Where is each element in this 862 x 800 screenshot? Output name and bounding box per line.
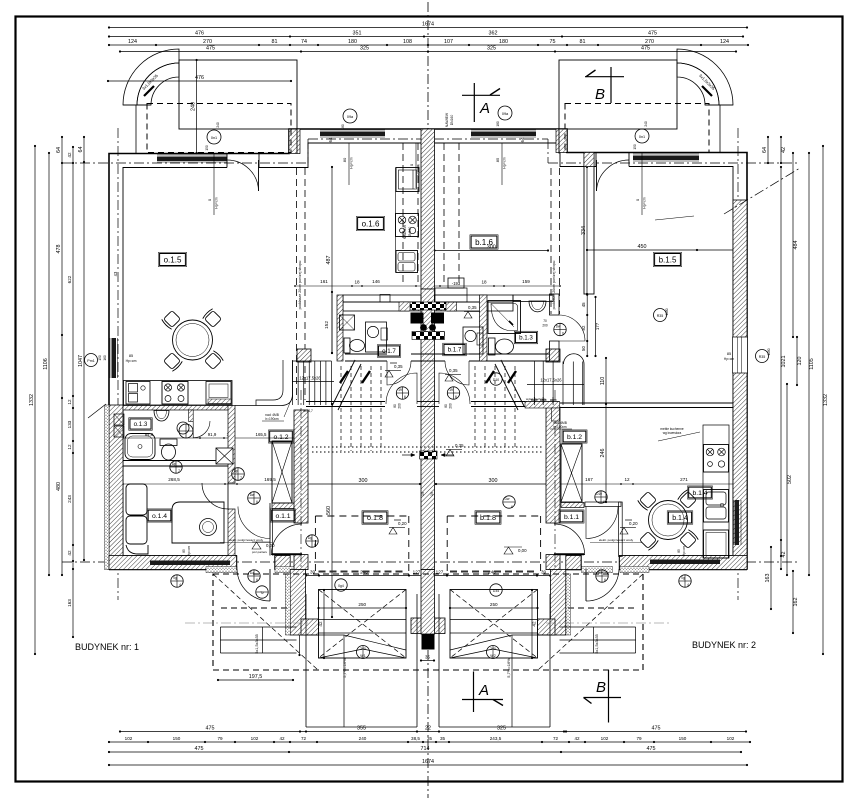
wall b.1.6 / b.1.5 right unit — [584, 153, 594, 295]
svg-text:o.1.6: o.1.6 — [362, 219, 380, 228]
front door right unit in top wall — [595, 153, 597, 167]
svg-text:75: 75 — [550, 39, 556, 45]
svg-text:43: 43 — [113, 271, 118, 276]
svg-text:72: 72 — [553, 736, 559, 741]
svg-text:246: 246 — [600, 449, 606, 458]
svg-text:1080: 1080 — [767, 348, 771, 355]
svg-text:475: 475 — [206, 726, 215, 732]
svg-text:475: 475 — [195, 746, 204, 752]
bottom dimension row C — [109, 751, 741, 753]
svg-text:5,7%=16%: 5,7%=16% — [506, 658, 511, 678]
dimension 110 and 246 vertical right — [605, 358, 607, 502]
vent checker band at axis — [410, 302, 446, 310]
svg-text:300: 300 — [489, 478, 498, 484]
svg-text:6: 6 — [562, 332, 564, 336]
door o.1.4 from corridor — [202, 483, 228, 509]
svg-text:475: 475 — [647, 746, 656, 752]
svg-text:240: 240 — [490, 647, 496, 651]
small rect above o.1.7 — [380, 295, 390, 303]
exterior wall inner boundary right unit — [428, 143, 596, 167]
svg-text:Hp=cm: Hp=cm — [126, 359, 137, 363]
svg-text:elektr. podgrzewacz wody: elektr. podgrzewacz wody — [229, 538, 264, 542]
svg-text:b.1.4: b.1.4 — [692, 490, 707, 497]
svg-text:502: 502 — [787, 475, 793, 484]
bold dashed lintel over garage door right — [450, 571, 538, 573]
arrow to party wall vent left — [402, 454, 415, 456]
dashed attic edge line left — [296, 168, 298, 400]
svg-text:19: 19 — [430, 492, 434, 496]
svg-text:50: 50 — [581, 346, 586, 351]
kitchen stove o.1.6 — [396, 214, 419, 237]
room label o.1.2 — [270, 431, 293, 442]
svg-text:240: 240 — [360, 647, 366, 651]
desk o.1.4 — [172, 502, 224, 543]
radiator left wall o.1.3 — [114, 414, 124, 425]
svg-text:D10: D10 — [493, 378, 499, 382]
svg-text:poddasze 20cm ponizej stropu: poddasze 20cm ponizej stropu — [552, 261, 556, 310]
svg-text:6: 6 — [256, 500, 258, 504]
bottom dimension row B — [109, 741, 750, 743]
axis dash dot through nook right — [546, 622, 671, 624]
svg-text:R35: R35 — [759, 355, 766, 359]
svg-text:271: 271 — [680, 477, 688, 482]
entry platform left unit — [179, 60, 297, 129]
svg-text:o.1.4: o.1.4 — [152, 513, 167, 520]
svg-text:b.1.6: b.1.6 — [475, 238, 493, 247]
svg-text:DN160: DN160 — [450, 115, 454, 126]
svg-text:BUDYNEK nr: 2: BUDYNEK nr: 2 — [692, 640, 756, 650]
svg-text:85: 85 — [727, 352, 731, 356]
svg-text:85: 85 — [129, 354, 133, 358]
right small dimension 162 — [792, 571, 794, 633]
window porch left o.1.6 — [320, 132, 385, 137]
dimension 560 vertical left garage — [331, 404, 333, 617]
svg-text:12: 12 — [67, 399, 72, 405]
chimney flue black right — [431, 313, 444, 324]
svg-text:79: 79 — [217, 736, 223, 741]
right dimension chain 120 — [796, 337, 798, 385]
svg-text:4: 4 — [687, 583, 689, 587]
center pier block between garage doors — [411, 618, 445, 634]
section mark A top — [462, 94, 500, 96]
party wall center — [421, 129, 435, 289]
interior dim row y=286 center — [295, 285, 560, 287]
left dimension chain 64/1047 — [83, 137, 85, 560]
svg-text:h=190cm: h=190cm — [265, 417, 279, 421]
svg-text:1674: 1674 — [422, 759, 434, 765]
right dimension chain 1105 — [808, 153, 810, 575]
kitchen sink b.1.4 — [704, 490, 729, 523]
wall segment o.1.1 hatched strip — [272, 503, 295, 509]
level marker -0.35 right landing — [445, 375, 453, 382]
svg-text:wg inwestora: wg inwestora — [663, 431, 682, 435]
svg-text:Hp=cm: Hp=cm — [417, 164, 421, 175]
kitchen counter right unit — [703, 425, 729, 558]
svg-text:161: 161 — [320, 279, 328, 284]
svg-text:-193: -193 — [452, 281, 461, 286]
svg-text:110: 110 — [600, 377, 606, 386]
svg-text:D34: D34 — [493, 589, 499, 593]
svg-text:200: 200 — [398, 403, 402, 409]
curved entry steps right unit — [677, 49, 733, 105]
cabinet washbasin b.1.7 — [463, 327, 483, 354]
svg-text:45: 45 — [581, 302, 586, 307]
svg-text:Tz: Tz — [260, 591, 264, 595]
terrace door left unit bottom wall — [236, 556, 238, 570]
room label b.1.3 — [515, 332, 536, 342]
svg-text:120: 120 — [797, 357, 803, 366]
marker circle 09a left porch — [343, 109, 357, 123]
big dashed canopy rect bottom — [213, 574, 643, 670]
room label b.1.1 — [560, 511, 583, 522]
room label o.1.6 — [358, 218, 384, 230]
window right wall b.1.5 white break — [733, 337, 748, 373]
svg-text:250: 250 — [490, 602, 498, 607]
chairs around right table — [637, 491, 657, 511]
driveway dim 35 center — [421, 660, 434, 662]
central mirror axis line — [427, 2, 429, 798]
cabinet washbasin o.1.7 — [366, 322, 387, 352]
svg-text:124: 124 — [128, 39, 137, 45]
level marker 0.00 right hall — [504, 547, 513, 554]
marker circle at b.1.3 door — [554, 323, 566, 335]
section mark B top — [585, 76, 624, 78]
radiator niche corridor wall left — [216, 448, 233, 464]
svg-text:poddasze 20cm ponizej stropu: poddasze 20cm ponizej stropu — [298, 261, 302, 310]
window right wall b.1.4 — [735, 500, 740, 545]
kitchen sink left unit — [126, 382, 150, 405]
svg-text:0,35: 0,35 — [468, 305, 477, 310]
section mark B bottom — [584, 697, 622, 699]
shower b.1.3 — [488, 301, 521, 334]
exterior wall outer boundary right unit — [428, 129, 747, 570]
svg-text:1047: 1047 — [78, 355, 84, 367]
svg-text:6: 6 — [314, 543, 316, 547]
svg-text:b.1.5: b.1.5 — [659, 255, 677, 264]
svg-text:o.1.1: o.1.1 — [275, 513, 290, 520]
svg-text:487: 487 — [326, 256, 332, 265]
dotted gallery lines above halls — [312, 446, 544, 448]
marker circle Dg left garage front — [306, 535, 318, 547]
svg-text:Dw: Dw — [250, 493, 255, 497]
svg-text:19: 19 — [449, 388, 453, 392]
marker circle Dw1 left hall — [248, 492, 261, 505]
svg-text:B: B — [595, 86, 605, 103]
svg-text:A: A — [478, 682, 489, 699]
window annotation top right porch — [501, 143, 503, 185]
svg-text:1106: 1106 — [43, 358, 49, 370]
svg-text:64: 64 — [520, 137, 525, 142]
svg-text:74: 74 — [301, 39, 307, 45]
bottom wall left hatch — [109, 556, 237, 570]
top dimension row 1 total 1674 — [109, 27, 747, 29]
shaft o.1.2 left — [272, 441, 292, 503]
room label b.1.4 kitchen — [689, 487, 712, 498]
svg-text:80: 80 — [444, 404, 448, 408]
shaft strip right unit — [561, 503, 584, 508]
sofa o.1.4 — [126, 484, 147, 515]
svg-text:240: 240 — [359, 736, 367, 741]
kitchen stove b.1.4 — [704, 445, 729, 473]
washbasin b.1.3 — [529, 301, 546, 312]
svg-text:200: 200 — [542, 324, 548, 328]
marker circle bottom b.1.4 — [490, 373, 502, 385]
svg-text:560: 560 — [326, 506, 332, 515]
door hall left — [386, 373, 417, 404]
nook side wall right unit — [550, 570, 565, 636]
svg-text:1332: 1332 — [823, 394, 829, 406]
dashed canopy lines garage left — [315, 515, 408, 517]
dimension 450 room b.1.5 — [587, 249, 740, 251]
svg-text:o.1.7: o.1.7 — [382, 348, 396, 355]
svg-text:Dp: Dp — [234, 469, 238, 473]
pier above garage wall left — [297, 349, 311, 362]
svg-text:b.1.2: b.1.2 — [567, 434, 582, 441]
counter line o.1.6 — [395, 168, 397, 273]
driveway dim 250 left — [319, 607, 407, 609]
marker circle 0n1 left — [207, 130, 221, 144]
svg-text:0,20: 0,20 — [398, 521, 407, 526]
svg-text:325: 325 — [487, 46, 496, 52]
svg-text:107: 107 — [444, 39, 453, 45]
svg-text:197,5: 197,5 — [249, 674, 263, 680]
window top wall right b.1.5 — [633, 156, 699, 161]
bottom wall right hatch — [619, 556, 747, 570]
dining table left unit — [173, 320, 213, 360]
svg-text:475: 475 — [206, 46, 215, 52]
bold dashed lintel over garage door left — [319, 571, 407, 573]
svg-text:A: A — [479, 100, 490, 117]
svg-text:102: 102 — [601, 736, 609, 741]
svg-text:250: 250 — [358, 602, 366, 607]
window left wall o.1.5 — [112, 338, 117, 378]
svg-text:12x17,5x26: 12x17,5x26 — [540, 378, 562, 383]
svg-text:79: 79 — [636, 736, 642, 741]
svg-text:70: 70 — [543, 319, 547, 323]
svg-text:42: 42 — [574, 736, 580, 741]
bold dashed lintel over terrace door right — [568, 607, 635, 609]
svg-text:150: 150 — [173, 736, 181, 741]
stair handrail curve to corridor wall — [235, 360, 293, 406]
svg-text:150: 150 — [679, 736, 687, 741]
stair left direction arrow — [332, 360, 355, 406]
svg-text:102: 102 — [251, 736, 259, 741]
svg-text:42: 42 — [781, 552, 787, 558]
svg-text:0n1: 0n1 — [211, 136, 217, 140]
svg-text:0,20: 0,20 — [629, 521, 638, 526]
svg-text:6: 6 — [603, 500, 605, 504]
svg-text:Dz: Dz — [250, 571, 254, 575]
svg-text:102: 102 — [125, 736, 133, 741]
door b.1.3 from hall — [559, 315, 585, 341]
arrow to party wall vent right — [441, 454, 454, 456]
dining table right unit — [649, 501, 688, 540]
chairs around left table — [161, 310, 181, 330]
svg-text:0n1: 0n1 — [639, 135, 645, 139]
stair left dashed upper flight — [340, 366, 342, 451]
entry platform right unit — [559, 60, 677, 129]
level marker -0.35 left landing — [385, 371, 393, 378]
sofa b.1.5 top right room side table — [699, 189, 701, 191]
svg-text:6: 6 — [256, 578, 258, 582]
toilet b.1.3 — [489, 338, 496, 355]
curved entry steps left unit — [123, 49, 179, 105]
svg-text:91,9: 91,9 — [208, 432, 217, 437]
marker circle Pm1 left wall window — [85, 354, 98, 367]
svg-text:159: 159 — [522, 279, 530, 284]
svg-text:Hp=cm: Hp=cm — [350, 157, 354, 168]
svg-text:h=190cm: h=190cm — [553, 425, 567, 429]
bottom wall right unit outer — [619, 569, 747, 571]
svg-text:12: 12 — [624, 477, 630, 482]
svg-text:268,5: 268,5 — [168, 477, 180, 482]
dimension 240 entry platform depth — [196, 60, 198, 153]
svg-text:146: 146 — [372, 279, 380, 284]
svg-text:09a: 09a — [502, 112, 509, 116]
svg-text:5,7%=16%: 5,7%=16% — [342, 658, 347, 678]
driveway apron outline right — [549, 594, 551, 727]
svg-text:362: 362 — [489, 31, 498, 37]
stair right direction arrow — [501, 360, 524, 406]
svg-text:18: 18 — [354, 280, 360, 285]
marker circle Dz right terrace door — [596, 570, 608, 582]
hatched jog block left porch — [289, 129, 300, 154]
pier below right wall at stairs — [552, 408, 560, 421]
dimension 210 vertical garage wall — [299, 575, 301, 655]
svg-text:Pm1: Pm1 — [87, 359, 94, 363]
svg-text:Dw: Dw — [505, 497, 510, 501]
svg-text:elektr. podgrzewacz wody: elektr. podgrzewacz wody — [599, 538, 634, 542]
svg-text:240: 240 — [216, 122, 220, 128]
right small dimension 64 — [767, 137, 769, 163]
steps hatch mark right — [702, 86, 712, 96]
right wall vertical axis line — [737, 128, 739, 600]
drain circle W2 — [487, 646, 500, 659]
svg-text:180: 180 — [496, 121, 500, 127]
right dimension chain 484 — [792, 153, 794, 337]
svg-text:240: 240 — [644, 121, 648, 127]
svg-text:300: 300 — [359, 478, 368, 484]
garage wall axis dash dot right — [554, 390, 556, 612]
marker circle 0n1 right — [635, 129, 649, 143]
door into b.1.1 — [586, 507, 618, 539]
svg-text:7: 7 — [240, 476, 242, 480]
svg-text:243,5: 243,5 — [490, 736, 502, 741]
svg-text:D10: D10 — [596, 492, 602, 496]
room label b.1.7 — [444, 344, 465, 354]
dashed diagonals bottom left — [213, 574, 318, 670]
svg-text:162: 162 — [793, 598, 799, 607]
party wall extension below building — [421, 570, 435, 635]
wall o.1.3 / o.1.4 — [123, 460, 232, 462]
room label b.1.2 — [563, 431, 586, 442]
black pier foot center — [422, 634, 435, 650]
svg-text:b.1.7: b.1.7 — [448, 347, 462, 354]
svg-text:85: 85 — [677, 549, 681, 553]
svg-text:35: 35 — [427, 736, 433, 741]
hall landing wall with doors left — [306, 401, 385, 403]
svg-text:B: B — [596, 679, 606, 696]
svg-text:0,35: 0,35 — [449, 368, 458, 373]
svg-text:133: 133 — [67, 420, 72, 428]
washer o.1.7 — [340, 315, 355, 330]
driveway dim 42 right — [531, 590, 533, 658]
left wall hatched lower segment — [109, 405, 123, 570]
top dimension row 2 — [109, 36, 743, 38]
svg-text:35: 35 — [425, 655, 430, 660]
svg-text:12: 12 — [67, 444, 72, 450]
svg-text:5x1,5x3x35: 5x1,5x3x35 — [595, 634, 599, 653]
pier at o.1.3 door — [189, 410, 194, 422]
svg-text:0,00: 0,00 — [518, 548, 527, 553]
marker circle Dp corridor wall — [232, 468, 245, 481]
left unit kitchen wall below counters hatched — [123, 406, 232, 411]
svg-text:0,35: 0,35 — [394, 364, 403, 369]
svg-text:8x16,7: 8x16,7 — [303, 409, 313, 413]
svg-text:72: 72 — [301, 736, 307, 741]
svg-text:b.1.1: b.1.1 — [564, 514, 579, 521]
exterior wall inner boundary left unit — [123, 168, 227, 556]
svg-text:42: 42 — [67, 550, 72, 556]
svg-text:o.1.5: o.1.5 — [164, 255, 182, 264]
bottom dimension row A — [120, 731, 746, 733]
svg-text:0,35: 0,35 — [455, 443, 464, 448]
svg-text:Hp=cm: Hp=cm — [643, 197, 647, 208]
svg-text:42: 42 — [781, 147, 787, 153]
svg-text:64: 64 — [762, 147, 768, 153]
svg-text:poz.parteru: poz.parteru — [252, 550, 268, 554]
marker circle Dz left terrace door — [248, 570, 260, 582]
right wall hatched segment — [733, 200, 747, 570]
right dimension chain 1332 — [822, 146, 824, 654]
dashed canopy rectangle top right — [565, 104, 709, 153]
dimension 152 vertical left — [331, 292, 333, 353]
marker circle corridor left — [170, 461, 182, 473]
right small dimension 163 — [770, 547, 772, 609]
wall band above bathrooms right — [435, 295, 514, 302]
door into o.1.3 — [193, 421, 210, 438]
level marker 0.20 right garage — [620, 528, 628, 535]
svg-text:12x17,5x26: 12x17,5x26 — [299, 376, 321, 381]
terrace steps right unit — [560, 626, 636, 628]
driveway dim 42 left — [323, 590, 325, 658]
svg-text:475: 475 — [641, 46, 650, 52]
corridor wall left unit — [228, 406, 235, 484]
svg-text:6: 6 — [604, 578, 606, 582]
svg-text:0g4: 0g4 — [338, 584, 344, 588]
section mark A bottom — [462, 699, 503, 701]
door hall right — [439, 373, 470, 404]
terrace door right unit bottom wall — [580, 556, 582, 570]
door into o.1.1 — [238, 507, 270, 539]
top dimension row 4 — [120, 51, 736, 53]
front door left unit in top wall — [226, 154, 228, 168]
interior dim row y=484 left — [123, 483, 306, 485]
dims 45 82 50 at b.1.3 door — [586, 295, 588, 356]
bathroom b.1.3 north wall extension — [513, 295, 553, 302]
bathroom west wall left — [337, 295, 343, 361]
right dimension chain 502 — [786, 384, 788, 575]
svg-text:Dp: Dp — [172, 462, 176, 466]
garage wall axis dash dot left — [300, 390, 302, 612]
svg-text:18: 18 — [481, 280, 487, 285]
dashed diagonals bottom right — [538, 574, 643, 670]
svg-text:42: 42 — [67, 152, 72, 158]
svg-text:163: 163 — [765, 574, 771, 583]
diagonal reference line top right — [724, 168, 800, 214]
svg-text:6: 6 — [455, 395, 457, 399]
svg-text:475: 475 — [648, 31, 657, 37]
